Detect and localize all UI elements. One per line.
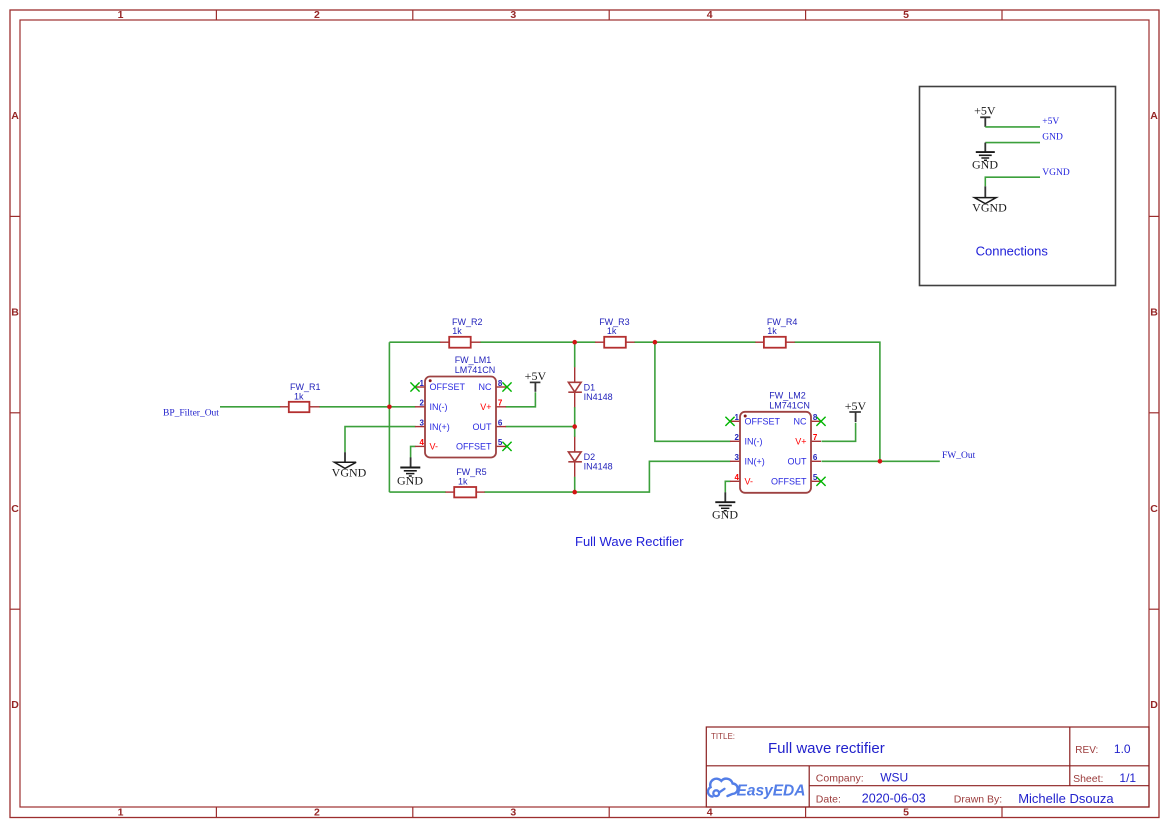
no-connect flag LM1 pin 1 [410,382,419,391]
resistor FW_R3 1k [595,317,635,348]
title block label Sheet: [1073,773,1103,785]
svg-text:2: 2 [314,9,320,21]
svg-text:OFFSET: OFFSET [456,442,492,452]
svg-text:V-: V- [745,477,754,487]
svg-text:+5V: +5V [1042,117,1059,127]
net label VGND [1042,168,1070,178]
svg-text:3: 3 [420,418,425,427]
svg-text:Sheet:: Sheet: [1073,773,1103,785]
svg-text:Michelle Dsouza: Michelle Dsouza [1018,791,1114,806]
title block label TITLE: [711,732,735,741]
wire D1 cathode to D2 anode through node J4 [574,407,576,437]
power flag +5V at LM2 [845,399,867,422]
wire LM1 pin 6 OUT to node J4 [506,426,575,428]
wire node J2 to FW_R3 [575,341,596,343]
svg-text:OFFSET: OFFSET [430,382,466,392]
svg-text:IN4148: IN4148 [584,392,613,402]
svg-text:IN4148: IN4148 [584,462,613,472]
svg-text:Full wave rectifier: Full wave rectifier [768,740,885,757]
wire FW_R4 right down to output row [794,342,880,461]
svg-text:1k: 1k [452,326,462,336]
svg-text:7: 7 [498,399,503,408]
ruler column numbers top [118,9,910,21]
svg-text:OUT: OUT [473,422,493,432]
svg-text:5: 5 [498,438,503,447]
wire LM1 pin 3 to VGND flag [345,427,416,453]
caption Connections [976,244,1049,259]
caption Full Wave Rectifier [575,534,684,549]
title block sheet value 1/1 [1119,771,1136,785]
diode D2 IN4148 [568,437,612,477]
svg-text:BP_Filter_Out: BP_Filter_Out [163,408,219,418]
svg-text:OFFSET: OFFSET [745,417,781,427]
svg-text:1k: 1k [607,326,617,336]
svg-text:8: 8 [498,379,503,388]
wire node J6 to FW_Out [880,460,940,462]
title block label REV: [1075,745,1098,756]
wire LM2 pin 4 to GND flag [725,481,730,492]
svg-text:VGND: VGND [332,466,367,480]
svg-text:5: 5 [903,807,909,819]
svg-text:2: 2 [735,433,740,442]
junction node J4 [572,424,577,429]
svg-text:5: 5 [903,9,909,21]
op-amp U2 FW_LM2 LM741CN [730,391,821,493]
net label GND [1042,133,1063,143]
resistor FW_R1 1k [280,382,321,412]
svg-text:Connections: Connections [976,244,1049,259]
svg-text:1/1: 1/1 [1119,771,1136,785]
svg-text:GND: GND [1042,133,1063,143]
wire riser to FW_R5 [389,491,445,493]
ruler row letters right [1150,110,1158,711]
svg-text:+5V: +5V [525,369,547,383]
wire top row riser to FW_R2 [389,341,440,343]
svg-text:B: B [1150,307,1158,319]
wire +5V net stub [985,126,1040,128]
title block table [706,727,1149,807]
wire node J2 down to D1 anode [574,342,576,367]
svg-text:3: 3 [735,453,740,462]
svg-text:VGND: VGND [1042,168,1070,178]
svg-text:Drawn By:: Drawn By: [954,793,1002,805]
title block rev value 1.0 [1114,742,1131,756]
svg-text:4: 4 [420,438,425,447]
svg-text:C: C [11,503,19,515]
svg-text:OUT: OUT [788,457,808,467]
svg-text:A: A [11,110,19,122]
svg-text:C: C [1150,503,1158,515]
svg-text:TITLE:: TITLE: [711,732,735,741]
svg-text:FW_LM2: FW_LM2 [769,391,806,401]
svg-text:7: 7 [813,433,818,442]
svg-text:D2: D2 [584,452,596,462]
resistor FW_R4 1k [755,317,797,348]
title block company value WSU [880,770,908,784]
connections group box [920,87,1116,286]
svg-text:IN(+): IN(+) [430,422,450,432]
svg-text:1k: 1k [458,477,468,487]
svg-text:GND: GND [712,508,738,522]
junction node J6 [878,459,883,464]
svg-text:2: 2 [420,399,425,408]
svg-text:4: 4 [735,473,740,482]
power flag +5V in connections box [974,104,996,127]
wire FW_R1 to node J1 [319,406,389,408]
title block label Company: [816,772,864,784]
svg-text:3: 3 [510,807,516,819]
svg-text:1k: 1k [294,391,304,401]
title block drawn-by value [1018,791,1114,806]
svg-text:V-: V- [430,442,439,452]
svg-text:NC: NC [794,417,807,427]
svg-text:GND: GND [972,158,998,172]
power flag +5V at LM1 [525,369,547,392]
svg-text:1: 1 [118,9,124,21]
svg-text:EasyEDA: EasyEDA [737,783,806,800]
svg-text:V+: V+ [795,437,806,447]
title block date value [862,791,926,805]
resistor FW_R2 1k [440,317,483,348]
svg-text:2: 2 [314,807,320,819]
wire node J1 to LM1 pin 2 [389,406,415,408]
svg-text:+5V: +5V [845,399,867,413]
svg-text:IN(+): IN(+) [745,457,765,467]
title block label Drawn By: [954,793,1002,805]
svg-text:1: 1 [118,807,124,819]
no-connect flag LM2 pin 1 [725,417,734,426]
junction node J2 [572,340,577,345]
wire node J3 to FW_R4 [655,341,756,343]
net label +5V [1042,117,1059,127]
ground flag VGND at LM1 pin 3 [332,452,367,479]
resistor FW_R5 1k [445,467,486,497]
no-connect flag LM1 pin 8 [502,382,511,391]
svg-text:Full Wave Rectifier: Full Wave Rectifier [575,534,684,549]
svg-text:2020-06-03: 2020-06-03 [862,791,926,805]
svg-text:GND: GND [397,473,423,487]
svg-text:IN(-): IN(-) [430,402,448,412]
wire D2 cathode to node J5 [574,477,576,493]
svg-text:4: 4 [707,9,713,21]
junction node J3 [653,340,658,345]
wire BP_Filter_Out to FW_R1 [220,406,280,408]
wire LM1 pin 4 to GND flag [411,446,416,457]
junction node J1 [387,405,392,410]
svg-text:6: 6 [813,453,818,462]
ground flag GND at LM2 pin 4 [712,492,738,521]
diode D1 IN4148 [568,367,612,407]
svg-text:1: 1 [420,379,425,388]
svg-text:VGND: VGND [972,201,1007,215]
svg-text:1.0: 1.0 [1114,742,1131,756]
junction node J5 [572,490,577,495]
svg-text:3: 3 [510,9,516,21]
svg-text:1k: 1k [767,326,777,336]
svg-text:FW_Out: FW_Out [942,451,976,461]
title block label Date: [816,793,841,805]
wire VGND net stub [985,177,1040,186]
svg-text:V+: V+ [480,402,491,412]
svg-text:B: B [11,307,19,319]
svg-text:D1: D1 [584,383,596,393]
no-connect flag LM2 pin 8 [816,417,825,426]
wire GND net stub [985,142,1040,144]
svg-text:Date:: Date: [816,793,841,805]
svg-text:LM741CN: LM741CN [455,365,496,375]
ruler column numbers bottom [118,807,910,819]
svg-text:WSU: WSU [880,770,908,784]
title block title value [768,740,885,757]
wire node J3 down to LM2 pin 2 [655,342,731,441]
wire FW_R5 to node J5 [484,491,574,493]
svg-text:NC: NC [479,382,492,392]
svg-text:Company:: Company: [816,772,864,784]
svg-text:LM741CN: LM741CN [769,401,810,411]
ground flag VGND in connections box [972,186,1007,214]
svg-text:FW_LM1: FW_LM1 [455,355,492,365]
op-amp U1 FW_LM1 LM741CN [415,355,506,457]
wire node J5 to LM2 pin 3 [575,461,731,492]
svg-text:D: D [1150,699,1158,711]
svg-text:D: D [11,699,19,711]
wire vertical riser J1 top row to R5 row [388,342,390,492]
wire LM2 pin 6 OUT to node J6 [822,460,880,462]
wire LM2 pin 7 to +5V flag [822,423,856,442]
wire LM1 pin 7 to +5V flag [506,392,536,407]
ruler row letters left [11,110,19,711]
ground flag GND at LM1 pin 4 [397,457,423,487]
ground flag GND in connections box [972,143,998,172]
net label BP_Filter_Out [163,408,219,418]
net label FW_Out [942,451,976,461]
no-connect flag LM1 pin 5 [502,442,511,451]
svg-text:+5V: +5V [974,104,996,118]
EasyEDA logo [708,779,805,800]
svg-text:REV:: REV: [1075,745,1098,756]
svg-text:A: A [1150,110,1158,122]
svg-text:6: 6 [498,418,503,427]
wire FW_R2 to node J2 [480,341,575,343]
wire FW_R3 to node J3 [634,341,655,343]
svg-text:1: 1 [735,413,740,422]
svg-text:4: 4 [707,807,713,819]
svg-text:OFFSET: OFFSET [771,477,807,487]
svg-text:IN(-): IN(-) [745,437,763,447]
no-connect flag LM2 pin 5 [816,477,825,486]
